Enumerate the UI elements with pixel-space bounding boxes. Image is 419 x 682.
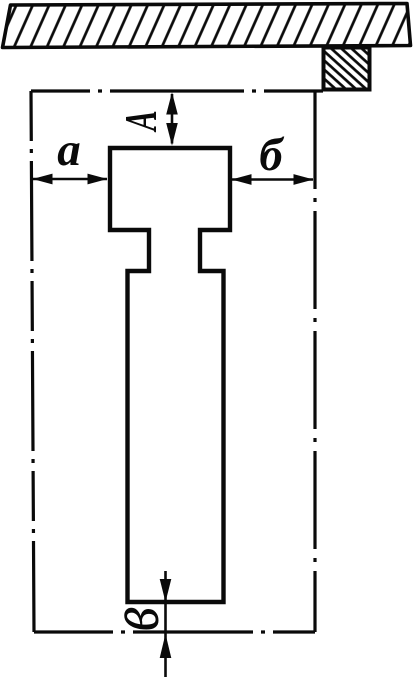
dimension b (right gap, double arrow)	[232, 174, 314, 185]
frame top edge (dash-dot)	[31, 89, 324, 92]
part outline (head, neck, long body)	[110, 148, 230, 602]
dimension a (left gap, double arrow)	[33, 174, 108, 185]
dimension v (bottom gap, arrows pointing inward)	[160, 571, 172, 677]
frame right edge (dash-dot)	[313, 91, 316, 632]
svg-text:в: в	[95, 607, 173, 631]
stop block (small hatched square under wall, right)	[324, 48, 370, 90]
svg-text:а: а	[57, 124, 81, 176]
svg-text:б: б	[259, 129, 285, 181]
wall (hatched bar at top)	[3, 4, 411, 48]
frame left edge (dash-dot)	[31, 91, 34, 632]
frame bottom edge (dash-dot)	[34, 630, 315, 633]
dimension A (vertical double arrow, top gap)	[166, 92, 178, 145]
svg-text:А: А	[117, 110, 166, 132]
